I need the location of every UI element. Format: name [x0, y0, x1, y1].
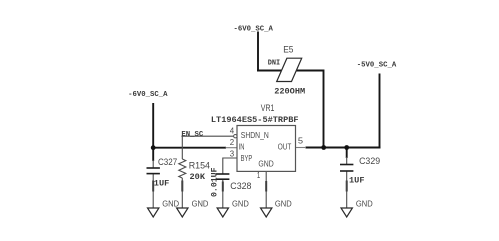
svg-text:C327: C327	[158, 156, 177, 167]
svg-text:R154: R154	[189, 160, 210, 171]
svg-text:GND: GND	[258, 158, 273, 168]
svg-text:GND: GND	[356, 198, 373, 208]
svg-text:EN_SC: EN_SC	[181, 131, 204, 139]
svg-text:VR1: VR1	[261, 102, 275, 113]
svg-text:BYP: BYP	[241, 153, 253, 163]
svg-text:LT1964ES5-5#TRPBF: LT1964ES5-5#TRPBF	[211, 115, 299, 125]
svg-text:220OHM: 220OHM	[274, 87, 305, 97]
svg-text:-5V0_SC_A: -5V0_SC_A	[357, 62, 397, 70]
svg-text:-6V0_SC_A: -6V0_SC_A	[234, 25, 274, 33]
svg-text:OUT: OUT	[278, 142, 292, 152]
svg-text:GND: GND	[192, 198, 209, 208]
svg-text:1UF: 1UF	[154, 178, 169, 188]
svg-text:E5: E5	[283, 44, 293, 55]
svg-text:2: 2	[230, 137, 235, 147]
svg-text:5: 5	[298, 136, 304, 146]
svg-text:1UF: 1UF	[349, 175, 364, 185]
svg-text:DNI: DNI	[268, 60, 280, 68]
svg-text:4: 4	[230, 125, 235, 135]
svg-text:GND: GND	[232, 198, 249, 208]
svg-text:C328: C328	[230, 180, 251, 191]
svg-text:SHDN_N: SHDN_N	[241, 130, 269, 140]
svg-text:1: 1	[257, 170, 261, 180]
svg-text:0.01UF: 0.01UF	[210, 168, 220, 198]
svg-text:C329: C329	[359, 155, 380, 166]
svg-text:GND: GND	[275, 198, 292, 208]
svg-text:IN: IN	[239, 142, 245, 152]
svg-text:-6V0_SC_A: -6V0_SC_A	[128, 91, 168, 99]
svg-text:3: 3	[230, 148, 235, 158]
svg-text:GND: GND	[162, 198, 179, 208]
svg-text:20K: 20K	[190, 172, 206, 182]
